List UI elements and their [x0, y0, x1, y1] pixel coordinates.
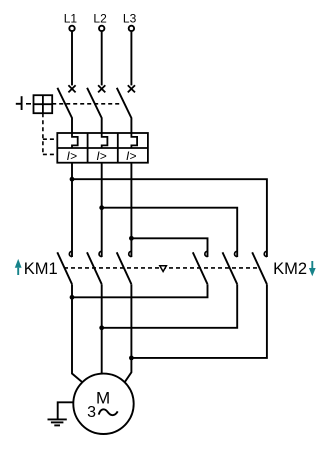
- node phase 1 branch: [70, 177, 75, 182]
- breaker blade pole 1: [57, 88, 72, 133]
- breaker linkage dashed line through blades: [52, 103, 121, 105]
- wire phase 1 breaker to KM1 pole 1: [71, 163, 73, 257]
- wire L2 down to breaker pole 2: [101, 32, 103, 86]
- linkage dashed branch to magnetic row: [43, 153, 57, 155]
- svg-text:L2: L2: [93, 12, 107, 26]
- wire KM2 pole 1 output to node U: [72, 284, 208, 297]
- breaker blade pole 3: [117, 88, 132, 133]
- wire phase 3 to KM2 pole 1: [131, 238, 207, 257]
- wire KM1 pole 2 output to motor: [101, 284, 103, 373]
- wire L3 down to breaker pole 3: [130, 32, 132, 86]
- KM2 contact pole 1: [193, 251, 208, 284]
- label KM2 with down arrow: [273, 260, 316, 278]
- wire motor to ground: [58, 402, 74, 418]
- breaker function cross pole 1: [68, 85, 75, 92]
- svg-text:I>: I>: [67, 149, 77, 163]
- svg-text:L3: L3: [123, 12, 137, 26]
- wire KM1 pole 1 output to motor: [72, 284, 82, 382]
- thermal element pole 3: [131, 133, 137, 148]
- svg-text:KM1: KM1: [24, 260, 58, 278]
- overload block frame: [57, 133, 148, 163]
- breaker function cross pole 2: [98, 85, 105, 92]
- terminal L3: [123, 12, 137, 31]
- actuator handle tick: [16, 96, 22, 110]
- node motor phase W: [129, 356, 134, 361]
- terminal L1: [64, 12, 78, 31]
- wire L1 down to breaker pole 1: [71, 32, 73, 86]
- node phase 3 branch: [129, 236, 134, 241]
- terminal L2: [93, 12, 107, 31]
- svg-text:3: 3: [87, 404, 96, 421]
- thermal element pole 1: [72, 133, 78, 148]
- motor M1 circle: [73, 374, 133, 434]
- actuator linkage dash to box: [26, 103, 31, 105]
- KM1 contact pole 3: [117, 251, 132, 284]
- wire KM2 pole 3 output to node W: [131, 284, 267, 358]
- wire KM1 pole 3 output to motor: [125, 284, 132, 382]
- wire phase 2 breaker to KM1 pole 2: [101, 163, 103, 257]
- svg-text:KM2: KM2: [273, 260, 307, 278]
- wire phase 3 breaker to KM1 pole 3: [130, 163, 132, 257]
- ground: [48, 419, 67, 425]
- node motor phase U: [70, 295, 75, 300]
- svg-text:I>: I>: [96, 149, 106, 163]
- motor label sine wave: [99, 409, 118, 415]
- KM2 contact pole 2: [223, 251, 238, 284]
- linkage dashed branch to thermal row: [43, 138, 57, 140]
- thermal element pole 2: [102, 133, 108, 148]
- breaker function cross pole 3: [128, 85, 135, 92]
- label KM1 with up arrow: [15, 259, 58, 278]
- svg-text:I>: I>: [126, 149, 136, 163]
- breaker blade pole 2: [87, 88, 102, 133]
- node motor phase V: [99, 325, 104, 330]
- KM2 contact pole 3: [252, 251, 267, 284]
- interlock dashed line: [64, 267, 260, 269]
- linkage dashed down from actuator box: [42, 113, 44, 154]
- wire KM2 pole 2 output to node V: [102, 284, 238, 328]
- breaker actuator box with cross: [34, 95, 53, 113]
- KM1 contact pole 1: [57, 251, 72, 284]
- node phase 2 branch: [99, 205, 104, 210]
- wire phase 2 to KM2 pole 2: [102, 208, 238, 257]
- wire phase 1 to KM2 pole 3: [72, 179, 267, 257]
- KM1 contact pole 2: [87, 251, 102, 284]
- interlock triangle: [160, 266, 167, 272]
- svg-text:L1: L1: [64, 12, 78, 26]
- svg-text:M: M: [96, 388, 110, 407]
